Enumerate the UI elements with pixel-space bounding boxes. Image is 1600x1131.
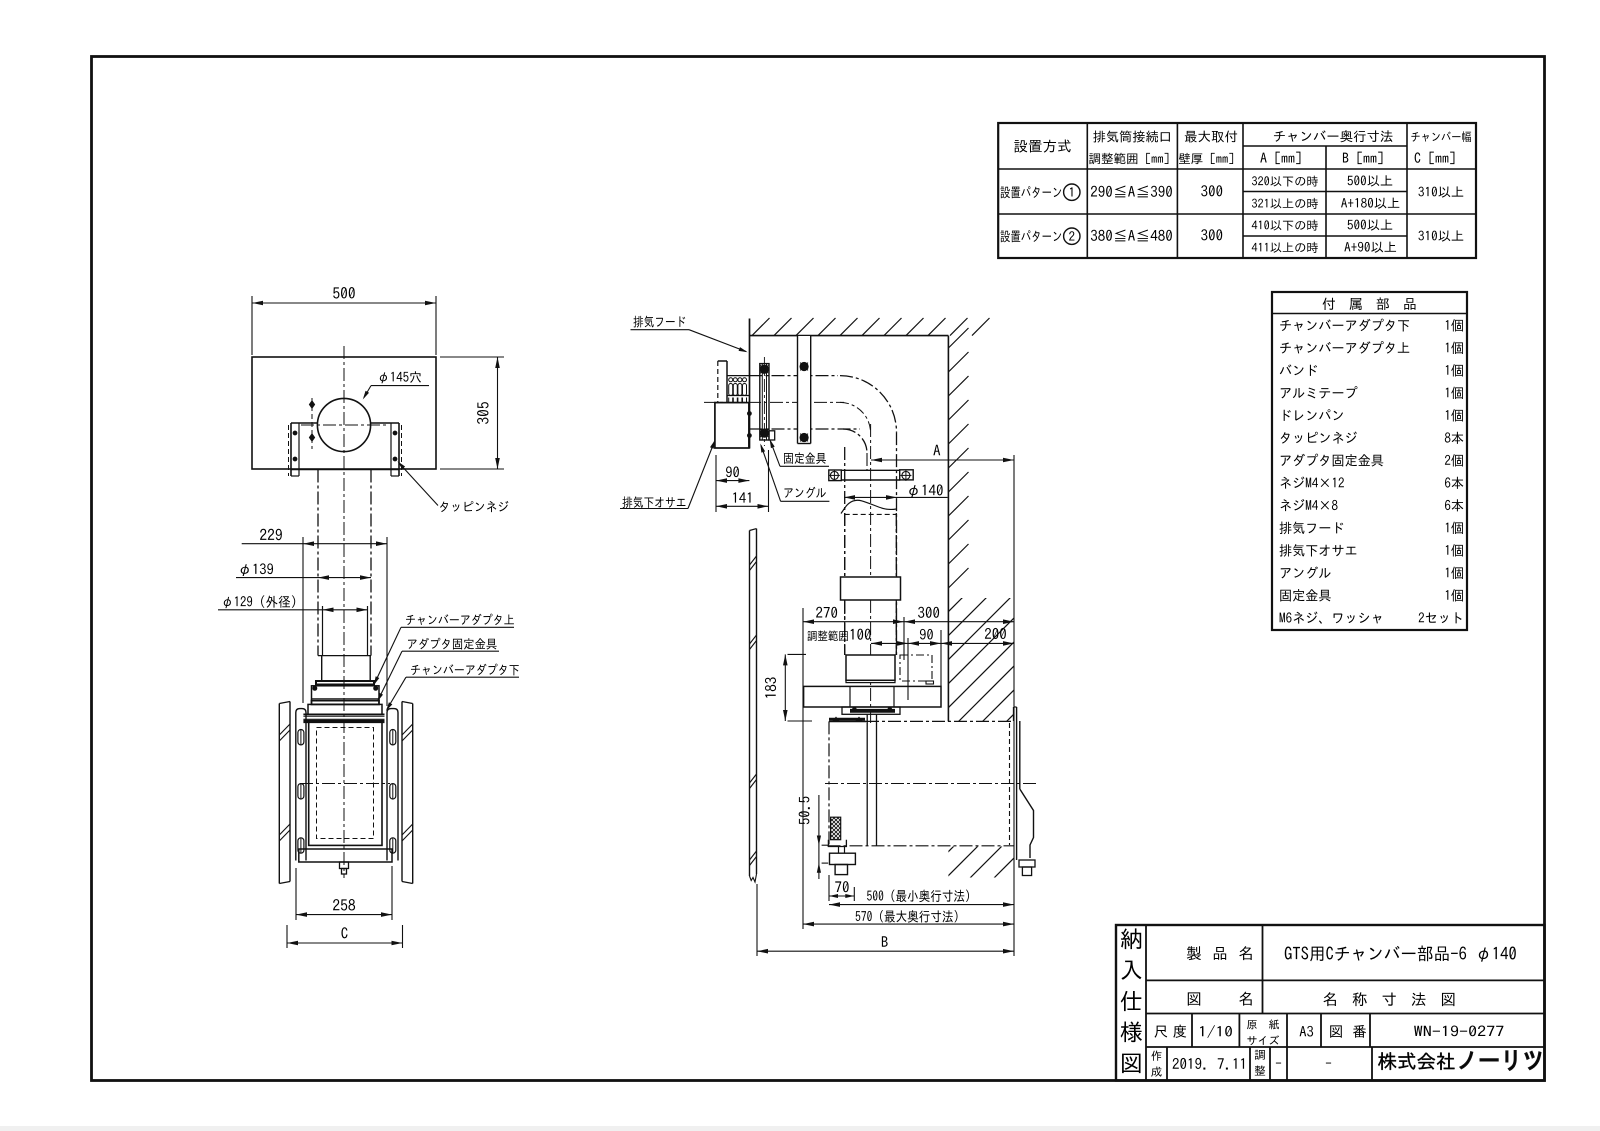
company logo 株式会社ノーリツ — [1378, 1052, 1454, 1070]
elbow center line arc — [840, 402, 871, 433]
lower-left wall strip (side view) — [749, 531, 751, 877]
dimension text 229 — [260, 529, 282, 540]
pipe support band with ears — [841, 469, 900, 471]
wall right edge — [947, 336, 949, 722]
parts table header line — [1272, 313, 1467, 315]
chamber rear face (hidden) — [1009, 723, 1011, 845]
flange screws — [293, 431, 297, 435]
front view: hood flange plate — [291, 422, 317, 424]
chamber top seam (front) — [303, 718, 384, 720]
drain bolt (front) — [340, 862, 349, 869]
title block grid lines — [1145, 925, 1147, 1081]
dimension 50.5 — [818, 795, 820, 879]
spec table row lines — [1243, 145, 1407, 147]
dimension 183 — [788, 653, 807, 655]
hole center lines — [301, 424, 388, 426]
spec row2a: 410以下の時 500以上 — [1252, 220, 1318, 231]
wall right edge hatching (narrow) — [948, 328, 968, 348]
spec row1: 300 — [1201, 185, 1222, 196]
chamber adapter upper (front) — [312, 686, 380, 701]
parts item: ドレンパン 1個 — [1284, 409, 1343, 421]
drain pan (front) — [299, 849, 392, 862]
pipe horizontal center line — [704, 401, 844, 403]
dimension 500 line — [252, 302, 436, 304]
drain pan mesh (side) — [831, 817, 841, 840]
spec table header: 設置方式 — [1014, 139, 1070, 152]
rear bolt — [1019, 860, 1035, 867]
label 排気下オサエ with leader — [622, 496, 685, 508]
title row: 図番 WN-19-0277 — [1330, 1025, 1342, 1037]
chamber hidden inner lines — [317, 728, 374, 839]
bottom page edge shade — [0, 1126, 1600, 1131]
dimension 305 line — [497, 357, 499, 469]
exhaust hood top piece — [718, 360, 727, 362]
horizontal pipe bottom edge — [750, 428, 861, 430]
lower pipe section below break — [845, 513, 897, 515]
chamber top edge (side) — [829, 720, 866, 722]
dimension text C — [341, 927, 347, 938]
vertical pipe center line — [870, 424, 872, 723]
title row: 調整 - — [1255, 1050, 1265, 1060]
product name GTS用Cチャンバー部品-6 φ140 — [1285, 945, 1516, 961]
hanger strap (over pipe) — [798, 336, 811, 444]
pipe break wavy line — [841, 500, 896, 513]
dimension text 500 — [333, 287, 355, 298]
parts item: M6ネジ、ワッシャ 2セット — [1280, 612, 1382, 624]
dimension 570 (最大奥行寸法) — [803, 923, 1014, 925]
spec row1b: 321以上の時 A+180以上 — [1252, 198, 1318, 209]
label 固定金具 with leader — [784, 452, 826, 464]
fixing bracket 固定金具 at wall face — [760, 364, 769, 440]
chamber bottom edge (side, phantom) — [828, 845, 1015, 847]
title row: 尺度 1/10 — [1155, 1026, 1168, 1038]
parts item: 排気フード 1個 — [1280, 522, 1344, 535]
adapter lower connection band — [842, 707, 900, 714]
drawing name 名称寸法図 — [1323, 992, 1454, 1006]
left wall strip (front view) — [278, 704, 280, 884]
label 排気フード with leader — [633, 316, 685, 328]
spec row2: 310以上 — [1418, 230, 1463, 241]
hanging rod in chamber — [866, 714, 868, 846]
extension line x=896.3 (pipe edge, dashed) — [895, 603, 897, 655]
heater center line (side) — [825, 783, 1036, 785]
parts item: 排気下オサエ 1個 — [1280, 544, 1357, 557]
chamber front edge (side, phantom) — [828, 721, 830, 846]
spec row1: 設置パターン1 — [1001, 186, 1062, 198]
spec row2: 300 — [1201, 229, 1222, 240]
spec row1: 290-390 — [1091, 186, 1172, 198]
chamber adapter upper (side) — [846, 655, 895, 680]
tube socket step — [318, 655, 371, 657]
parts table outer border — [1272, 292, 1467, 630]
hood louver slots — [727, 375, 749, 377]
dimension 305 extension lines — [440, 356, 504, 358]
dimension text φ129(外径) — [224, 595, 295, 608]
dimension 229 extension lines — [302, 537, 304, 703]
label タッピンネジ with leader — [440, 501, 508, 512]
right mounting plate — [387, 709, 398, 861]
dimension text 258 — [333, 899, 355, 910]
spec row2: 設置パターン2 — [1001, 230, 1062, 242]
title row: 作成 2019.7.11 — [1151, 1051, 1161, 1061]
mounting plate slots — [298, 730, 304, 745]
parts item: チャンバーアダプタ下 1個 — [1280, 319, 1409, 332]
left mounting plate — [296, 709, 306, 861]
dimension 258 line — [296, 914, 392, 916]
dimension C extension lines — [286, 925, 288, 948]
parts item: バンド 1個 — [1280, 364, 1317, 376]
front view: exhaust tube (phantom) — [317, 470, 319, 656]
right extension line (A,300,200,B) — [1013, 455, 1015, 956]
parts item: アダプタ固定金具 2個 — [1281, 454, 1383, 467]
vertical pipe edges — [844, 447, 846, 655]
parts item: アルミテープ 1個 — [1281, 386, 1358, 398]
parts table header: 付属部品 — [1323, 297, 1416, 310]
parts item: チャンバーアダプタ上 1個 — [1280, 341, 1409, 354]
dimension 500 extension lines — [251, 296, 253, 355]
parts item: アングル 1個 — [1281, 566, 1331, 578]
spec row1a: 320以下の時 500以上 — [1252, 176, 1318, 187]
dimension φ140 — [844, 496, 948, 498]
front view: hole φ145 — [317, 398, 370, 451]
chamber adapter lower (front) — [308, 704, 382, 714]
spec table header: A[mm] — [1260, 152, 1300, 165]
hood mounting screws on wall face — [748, 412, 752, 416]
dimension 200 — [941, 642, 1014, 644]
elbow outer arc — [840, 376, 897, 433]
spec row2b: 411以上の時 A+90以上 — [1252, 242, 1318, 253]
dimension φ129(外径) line — [218, 609, 368, 611]
spec table outer border — [998, 123, 1476, 258]
left long extension line x=803 — [802, 608, 804, 929]
drain bracket (side) — [828, 840, 846, 847]
parts item: タッピンネジ 8本 — [1281, 432, 1357, 444]
horizontal pipe top edge — [750, 375, 839, 377]
spec table header: 最大取付 壁厚[mm] — [1185, 131, 1237, 143]
dimension 141 — [768, 450, 770, 512]
extension line x=908 — [907, 638, 909, 700]
drain bolt (side) — [830, 853, 856, 864]
spec table header: 排気筒接続口 調整範囲[mm] — [1093, 130, 1170, 142]
title row: 製品名 — [1187, 946, 1201, 960]
label φ145穴 with leader — [380, 371, 421, 383]
rear mounting bracket — [1013, 707, 1015, 721]
vertical center line of front view — [343, 346, 345, 878]
angle piece アングル — [769, 431, 775, 440]
dimension C line — [287, 942, 403, 944]
spec table header: チャンバー幅 C[mm] — [1411, 131, 1471, 142]
label アングル with leader — [784, 487, 825, 498]
front view: wall plate 500x305 — [252, 357, 436, 469]
parts item: ネジM4×8 6本 — [1280, 499, 1337, 511]
dimension 500 (最小奥行寸法) — [829, 904, 1014, 906]
vertical label 納入仕様図 — [1121, 928, 1141, 949]
adapter fixing band — [312, 701, 380, 705]
inner tube lines (φ129) — [322, 606, 324, 656]
dimension 300 — [904, 621, 1014, 623]
wall top hatching — [752, 318, 770, 336]
extension line x=904 — [903, 617, 905, 660]
dimension 270 — [803, 621, 904, 623]
dimension text 305 — [477, 402, 488, 424]
wall strip section ticks — [279, 724, 290, 735]
dimension 70 — [828, 875, 830, 901]
dimension B — [756, 884, 758, 956]
dimension 229 line — [242, 543, 387, 545]
elbow inner arc — [843, 429, 867, 453]
spec row1: 310以上 — [1418, 186, 1463, 197]
band バンド on pipe joint — [841, 577, 901, 600]
dimension 90 (hood depth) — [715, 455, 717, 512]
adapter alternative position (dashed) — [900, 655, 932, 681]
wall strip section ticks (side) — [750, 556, 757, 565]
spec table header: B[mm] — [1343, 152, 1382, 165]
spec row2: 380-480 — [1091, 230, 1172, 242]
chamber body (front) — [309, 722, 382, 846]
screw position markers — [311, 398, 313, 449]
dimension text φ139 — [241, 563, 273, 576]
exhaust hood body — [715, 403, 749, 448]
labels チャンバーアダプタ上/アダプタ固定金具/チャンバーアダプタ下 with leaders — [406, 614, 514, 625]
spec table header: チャンバー奥行寸法 — [1274, 130, 1393, 142]
wall front face line — [749, 319, 751, 449]
title block outer border — [1116, 925, 1545, 1081]
wall top edge — [750, 335, 949, 337]
heater center line (front) — [300, 783, 390, 785]
socket rim band — [316, 681, 374, 685]
dimension φ139 line — [236, 577, 371, 579]
parts item: 固定金具 1個 — [1280, 589, 1331, 602]
title row: 原紙サイズ A3 — [1247, 1019, 1279, 1029]
adapter flange wide box (side) — [804, 686, 941, 707]
extension line x=941 — [940, 630, 942, 686]
dimension 調整範囲100 — [871, 642, 908, 644]
right wall strip (front view) — [401, 702, 403, 882]
dimension 90 (side) — [908, 642, 941, 644]
parts item: ネジM4×12 6本 — [1280, 477, 1343, 489]
title row: 図名 — [1188, 992, 1200, 1005]
dimension A — [871, 459, 1014, 461]
dimension 258 extension lines — [295, 868, 297, 920]
spec table column lines — [1086, 123, 1088, 258]
